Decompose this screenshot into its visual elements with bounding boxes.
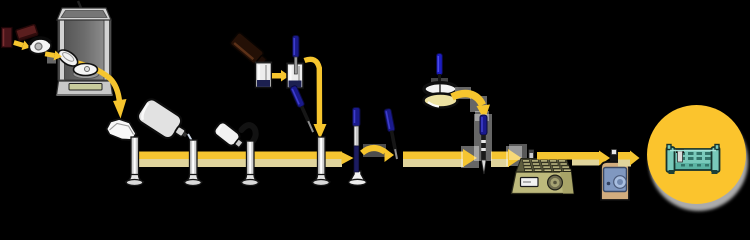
curved arrow petri to pipette 5 <box>455 87 471 99</box>
maroon reagent slab <box>16 24 38 41</box>
funnel (weigh boat) pouring into flask 1 <box>107 119 137 140</box>
beaker 2 <box>287 64 304 89</box>
arc arrow flask5 to tilted pipette <box>363 144 386 157</box>
main yellow band (flask row) <box>135 152 342 160</box>
band arrowhead into instrument <box>506 146 522 166</box>
flask 2 <box>184 140 203 186</box>
petri dish with lid and blue pipette <box>424 54 458 108</box>
weighing dish with powder (outside) <box>29 38 51 54</box>
tilted pipette into flask 4 <box>290 85 317 134</box>
arrow inside balance to outside (curves down to funnel) <box>73 62 120 102</box>
wash bottle pouring into flask 2 <box>135 97 193 147</box>
dark dropper hook <box>242 125 256 141</box>
small device (tan with blue panel) <box>601 150 629 201</box>
arrow beaker1 to beaker2 <box>272 70 290 82</box>
beaker 1 <box>255 63 272 88</box>
analytical balance <box>57 1 113 95</box>
arrow bottle to dish <box>12 38 31 53</box>
weighing dish on pan <box>74 64 98 76</box>
band device to circle <box>618 152 631 160</box>
band arrowhead before flask 5 <box>342 152 354 165</box>
red reagent bottle top-left <box>2 28 13 48</box>
band segment 3 <box>491 152 509 160</box>
band segment 2 <box>403 152 464 160</box>
yellow circle <box>647 105 746 204</box>
curved arrow beaker2 down to flask 4 <box>305 59 320 125</box>
test tube rack (teal, pixel art) <box>667 145 720 175</box>
pipette in beaker 2 <box>293 36 300 75</box>
flask 3 <box>241 141 260 186</box>
flask 1 <box>125 137 144 186</box>
tilted pipette 4 <box>384 108 401 159</box>
small bottle pouring into flask 3 <box>213 120 246 151</box>
arrow dish to balance <box>47 56 56 64</box>
flask 4 <box>312 137 331 186</box>
pipette 5 (vertical, between arrows) <box>474 114 492 161</box>
brown bottle pouring into beaker 1 <box>229 32 269 69</box>
tilted weighing dish inside balance <box>56 47 81 69</box>
yellow circle drop shadow <box>649 112 748 211</box>
band from instrument to device <box>537 152 599 160</box>
gray weighing pan <box>73 70 99 79</box>
flask 5 (small) with long pipette <box>349 108 367 186</box>
instrument (pH meter with keypad) <box>509 144 574 194</box>
